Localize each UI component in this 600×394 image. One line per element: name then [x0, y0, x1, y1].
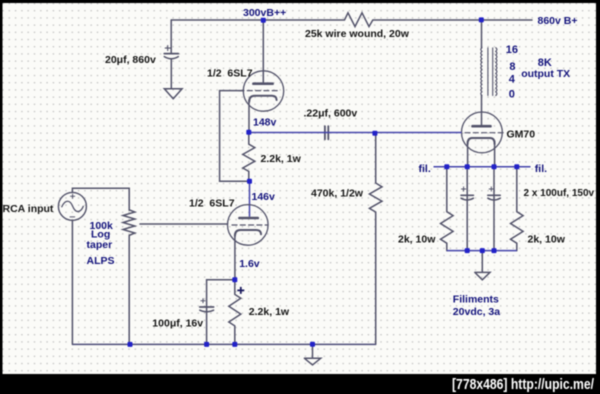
svg-text:RCA input: RCA input — [3, 203, 54, 215]
svg-text:.22μf, 600v: .22μf, 600v — [304, 107, 358, 119]
svg-text:20vdc, 3a: 20vdc, 3a — [453, 306, 500, 318]
svg-text:2k, 10w: 2k, 10w — [398, 233, 436, 245]
svg-text:148v: 148v — [253, 117, 277, 129]
svg-text:25k wire wound, 20w: 25k wire wound, 20w — [305, 28, 410, 40]
svg-text:8: 8 — [509, 61, 515, 73]
svg-text:ALPS: ALPS — [87, 255, 115, 267]
svg-text:146v: 146v — [252, 191, 276, 203]
svg-text:8K: 8K — [538, 57, 552, 69]
svg-text:1.6v: 1.6v — [239, 258, 260, 270]
svg-text:fil.: fil. — [535, 163, 547, 175]
svg-text:20μf, 860v: 20μf, 860v — [105, 54, 156, 66]
svg-text:2k, 10w: 2k, 10w — [528, 233, 566, 245]
svg-text:1/2 6SL7: 1/2 6SL7 — [207, 67, 253, 79]
svg-text:100μf, 16v: 100μf, 16v — [152, 317, 203, 329]
svg-text:GM70: GM70 — [507, 129, 536, 141]
svg-text:[778x486] http://upic.me/: [778x486] http://upic.me/ — [452, 376, 595, 393]
svg-text:2 x 100uf, 150v: 2 x 100uf, 150v — [524, 188, 595, 199]
svg-text:1/2 6SL7: 1/2 6SL7 — [189, 198, 235, 210]
svg-text:2.2k, 1w: 2.2k, 1w — [261, 153, 302, 165]
svg-text:4: 4 — [509, 74, 516, 86]
svg-text:2.2k, 1w: 2.2k, 1w — [249, 306, 290, 318]
svg-text:0: 0 — [509, 89, 515, 101]
svg-text:300vB++: 300vB++ — [243, 7, 286, 19]
svg-text:16: 16 — [506, 44, 518, 56]
svg-text:Filiments: Filiments — [453, 293, 499, 305]
svg-text:output TX: output TX — [521, 68, 570, 80]
svg-text:fil.: fil. — [419, 163, 431, 175]
svg-text:860v B+: 860v B+ — [538, 15, 578, 27]
svg-text:470k, 1/2w: 470k, 1/2w — [311, 187, 364, 199]
svg-text:taper: taper — [87, 239, 113, 251]
